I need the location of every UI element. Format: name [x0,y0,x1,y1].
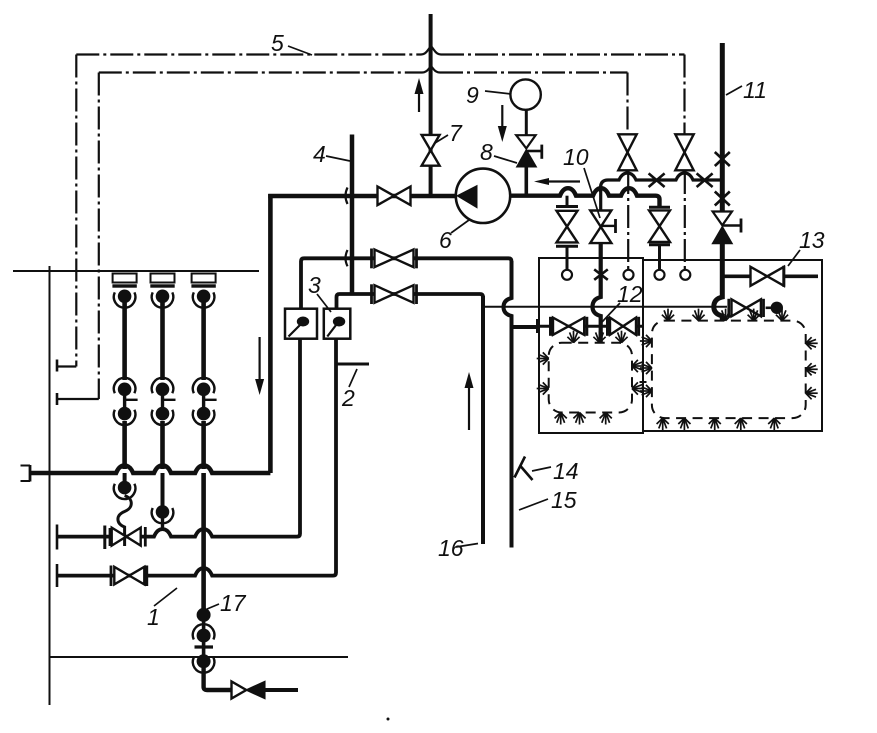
pump unit 1 mid joint ball upper [118,383,132,397]
orifice X on drencher feed [594,269,608,279]
pump unit 3 mid joint cup [193,410,215,425]
pump unit 2 mid joint ball lower [156,407,170,421]
drencher nozzle left left-ring [537,352,549,364]
impulse line left vertical 2 [98,73,100,400]
svg-text:15: 15 [551,487,577,513]
line from gauge to pipe 16 [337,294,484,309]
fire pump unit 3 motor box [192,274,216,283]
wall fitting cup arc [193,657,215,672]
feed line to risers [601,173,723,192]
pump unit 2 flange bar [150,284,174,287]
suction main line [268,194,456,199]
row A end bar [56,525,59,550]
svg-text:10: 10 [563,144,589,170]
fire pump unit 2 motor box [151,274,175,283]
impulse line 1 end stub [57,365,76,367]
svg-text:17: 17 [220,590,247,616]
wall fitting stem [202,620,206,660]
svg-text:7: 7 [449,120,463,146]
drencher nozzle top right-ring [662,309,674,321]
leader line 14 [532,467,551,471]
leader line 6 [451,220,469,233]
svg-text:5: 5 [271,30,284,56]
riser pipe top [429,14,433,196]
pump unit 1 column pipe lower [122,421,127,469]
svg-text:14: 14 [553,458,579,484]
drencher nozzle right right-ring [806,337,818,349]
tee fillet arc at pipe 4 lower junction [346,250,348,266]
drencher nozzle left right-ring [640,335,652,347]
protected room box right [643,260,822,431]
column 2 drain stem [161,473,165,507]
pump discharge manifold [510,188,660,206]
line 2 to drencher rooms [484,306,727,308]
joint ball 17 [197,608,211,622]
sprinkler feed row A [57,339,300,537]
column 2 stem to row A [161,519,164,531]
wall fitting flange bar [195,645,214,648]
drencher nozzle bottom right-ring [709,418,721,430]
drencher nozzle top left-ring [615,331,627,343]
column 1 water-seal S-loop [118,496,131,547]
drencher nozzle top right-ring [748,309,760,321]
valve 12 right bowtie [610,318,623,335]
pump unit 3 mid tick [204,399,217,401]
leader line 16 [456,544,478,548]
hose valve bowtie [732,299,747,316]
gate valve 7 [422,135,440,150]
flow arrow up riser [418,92,420,112]
deluge valve right on impulse line [675,134,693,152]
drain check valve filled triangle [246,682,264,699]
check valve on pipe 11 handle [722,224,741,227]
valve 13 bowtie [751,267,768,286]
flow arrow up pipe 16 [468,386,470,430]
pump unit 1 mid stem [123,394,126,409]
valve 12 right flange bars [606,317,609,336]
impulse line 5 upper horizontal [76,53,421,55]
pump unit 1 top joint ball [118,290,132,304]
wall fitting ball lower [197,654,211,668]
valve on line to pipe 15 bowtie [375,250,395,268]
pump unit 2 mid joint ball upper [156,383,170,397]
impulse drop to deluge valve left [626,73,628,135]
valve 10 handle [601,225,616,227]
pressure switch 3 left box [285,309,317,339]
svg-text:6: 6 [439,227,452,253]
leader line 10 [584,168,600,218]
column 3 main drop pipe [201,473,206,610]
pipe 15 vertical with hop [504,261,512,548]
drencher nozzle bottom left-ring [600,413,612,425]
drain check valve open triangle [232,682,247,699]
pump unit 1 top joint cup [114,292,136,307]
drencher nozzle bottom right-ring [768,418,780,430]
deluge control valve 10 bowtie [590,211,611,227]
drencher section feed drop [599,186,602,211]
pump unit 2 top joint cup [152,292,174,307]
leader line 9 [485,91,511,94]
drain outlet circle 3 [655,270,665,280]
pump unit 1 mid joint cap [114,378,136,393]
column 1 drain ball [118,481,132,495]
pump unit 3 mid stem [202,394,205,409]
drencher nozzle bottom left-ring [555,413,567,425]
svg-text:4: 4 [313,141,326,167]
drencher nozzle left right-ring [640,385,652,397]
drain outlet circle 2 [624,270,634,280]
leader line 1 [154,588,177,606]
impulse line 5 lower horizontal [99,71,422,73]
pump unit 2 mid stem [161,394,164,409]
pump unit 3 column pipe lower [201,421,206,469]
suction valve bowtie [378,187,395,206]
pipe 16 vertical [481,296,485,544]
leader line 12 [602,303,620,322]
orifice X on pipe 11 upper [715,152,730,166]
drencher ring left [549,343,632,413]
hose valve blind cap dot [771,302,783,314]
drencher nozzle bottom left-ring [573,413,585,425]
gauge 9 stem [525,110,528,136]
drain valve left bowtie [557,211,578,227]
drencher nozzle top left-ring [593,331,605,343]
orifice X on feed line left [649,173,665,187]
drain valve right bars [649,206,670,209]
pipe 11 lower with hop [714,244,723,321]
check valve 8 handle [526,150,542,153]
valve 13 line [722,274,751,278]
pressure switch 3 right dot [333,317,345,327]
valve on line to pipe 15 bars [370,249,373,269]
pump unit 2 column pipe upper [160,303,165,381]
wall fitting cap arc [193,624,215,639]
leader line 5 [288,46,312,55]
pressure switch 3 left needle [289,325,301,337]
wall fitting ball upper [197,629,211,643]
deluge riser pipe 11 [720,43,725,212]
pump unit 1 flange bar [112,284,136,287]
drain stem left [566,196,569,207]
svg-text:8: 8 [480,139,493,165]
valve on line to pipe 16 bars [370,284,373,304]
svg-text:11: 11 [743,77,767,103]
impulse drop to deluge valve right [683,55,685,135]
drencher nozzle bottom right-ring [657,418,669,430]
drencher ring right [652,321,806,419]
pump unit 3 mid joint cap [193,378,215,393]
valve 12 left bowtie [553,318,569,335]
pump unit 1 column pipe upper [122,303,127,381]
drain valve left bars [556,205,578,208]
pump unit 1 mid joint ball lower [118,407,132,421]
manifold end cap [29,465,32,482]
leader line 2 [349,369,357,387]
valve 12 left flange bars [549,317,552,336]
pump unit 2 mid tick [163,399,176,401]
drencher nozzle bottom right-ring [678,418,690,430]
impulse drain drop left dash-dot [627,171,629,270]
tick on shared box edge [640,381,647,383]
pump unit 3 top joint cup [193,292,215,307]
drencher feed below valve 10 with hop [593,243,601,343]
drencher nozzle right left-ring [632,382,644,394]
floor line of pump room [13,270,259,272]
pump 6 [456,169,510,223]
svg-text:13: 13 [799,227,825,253]
drain outlet circle 1 [562,270,572,280]
pipe 4 vertical [350,135,355,295]
drain outlet circle 4 [680,270,690,280]
leader line 4 [326,156,350,161]
pump unit 3 mid joint ball upper [197,383,211,397]
pump unit 3 column pipe upper [201,303,206,381]
flow arrow down gauge [501,105,503,128]
drencher nozzle top right-ring [776,309,788,321]
suction manifold bottom [30,466,270,474]
building bottom line [50,656,349,658]
leader line 8 [494,156,517,163]
valve 12 row end bar [536,319,539,333]
pump unit 3 top joint ball [197,290,211,304]
pressure switch 3 right needle [327,325,336,337]
valve 13 seat bar [782,266,785,287]
valve on row A bowtie [112,528,127,546]
impulse drain drop right dash-dot [684,171,686,270]
valve 1 flange bars [110,566,113,587]
svg-text:1: 1 [147,604,160,630]
leader line 13 [788,250,800,266]
drencher nozzle top left-ring [567,331,579,343]
valve 1 bowtie [114,567,129,585]
tick line 2 stub [337,363,369,366]
check valve on pipe 11 filled triangle [711,225,733,244]
drain stem right [658,245,661,270]
leader line 7 [435,135,448,143]
svg-text:16: 16 [438,535,464,561]
pressure gauge 9 [510,79,540,109]
pump unit 2 mid joint cap [152,378,174,393]
drencher nozzle top right-ring [720,309,732,321]
svg-text:2: 2 [341,385,355,411]
column 1 drain cup [114,484,136,499]
line from gauge to pipe 15 [301,258,512,308]
svg-text:3: 3 [308,272,321,298]
column 2 drain ball [156,505,170,519]
pump unit 1 mid tick [125,399,138,401]
suction header vertical [268,194,273,473]
drencher nozzle bottom right-ring [735,418,747,430]
check valve 8 drop pipe [524,167,528,196]
sprinkler feed row B [57,339,336,576]
check valve on pipe 11 open triangle [713,212,732,226]
flow arrow left on feed [547,180,580,182]
pressure switch 3 right box [324,309,351,339]
pump unit 1 mid joint cup [114,410,136,425]
impulse line left vertical 1 [75,55,77,367]
svg-text:9: 9 [466,82,479,108]
pump unit 2 top joint ball [156,290,170,304]
leader line 11 [726,86,742,95]
pressure switch 3 left dot [297,317,309,327]
column 1 stem above ball [123,473,127,482]
drencher nozzle right left-ring [632,360,644,372]
column 2 drain cup [152,508,174,523]
drencher nozzle left right-ring [640,362,652,374]
protected room box left [539,258,643,433]
flow arrow down header [259,337,261,381]
hose valve stem [766,306,771,309]
drain valve right bowtie [649,210,670,226]
leader line 3 [317,294,331,312]
leader line 17 [207,604,219,609]
tee fillet arc at pipe 4 suction junction [346,188,348,205]
valve on row A flange bars [103,526,106,550]
drencher nozzle top right-ring [692,309,704,321]
check valve 8 open triangle [516,135,535,148]
check valve 8 filled triangle [516,148,538,167]
drencher nozzle left left-ring [537,382,549,394]
orifice X on feed line right [697,173,713,187]
pump unit 2 column pipe lower [160,421,165,469]
pump unit 2 mid joint cup [152,410,174,425]
drain outlet pipe [204,668,232,690]
impulse line 2 end stub [57,398,99,400]
row B end bar [56,564,59,587]
pump unit 3 flange bar [191,284,215,287]
fire pump unit 1 motor box [113,274,137,283]
drencher nozzle right right-ring [806,387,818,399]
valve 12 row line [512,325,538,329]
pump unit 3 mid joint ball lower [197,407,211,421]
slope mark 14 [515,457,526,478]
drencher nozzle right right-ring [806,363,818,375]
leader line 15 [519,499,548,510]
stray dot [387,718,390,721]
hose valve flange bars [727,299,730,317]
wall line left [49,266,51,705]
orifice X on pipe 11 lower [715,192,730,206]
valve on line to pipe 16 bowtie [375,285,395,303]
drain outlet continuation [265,688,299,692]
svg-text:12: 12 [617,281,643,307]
deluge valve left on impulse line [618,134,636,152]
